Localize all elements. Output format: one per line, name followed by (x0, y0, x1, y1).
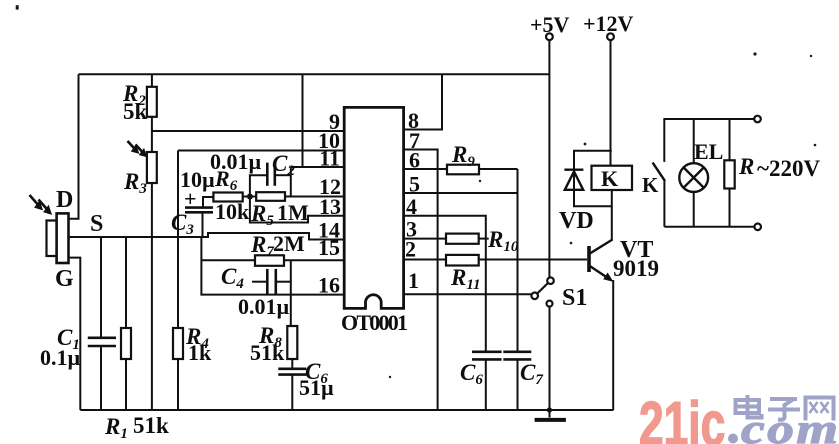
svg-text:R: R (738, 154, 754, 179)
svg-text:S: S (90, 211, 103, 237)
svg-text:9019: 9019 (613, 256, 659, 281)
svg-text:0.01µ: 0.01µ (210, 149, 262, 174)
svg-text:15: 15 (318, 235, 340, 260)
svg-text:2: 2 (405, 237, 416, 262)
svg-text:0.1µ: 0.1µ (40, 345, 81, 370)
svg-text:51k: 51k (133, 413, 169, 438)
svg-text:6: 6 (409, 148, 420, 173)
svg-text:+: + (184, 186, 197, 211)
svg-text:K: K (601, 166, 618, 191)
svg-text:+12V: +12V (583, 11, 634, 36)
svg-text:OT0001: OT0001 (341, 310, 408, 335)
svg-text:51µ: 51µ (299, 375, 334, 400)
svg-text:10k: 10k (215, 199, 250, 224)
svg-text:21ic: 21ic (639, 390, 725, 444)
svg-text:+5V: +5V (530, 12, 570, 37)
svg-text:0.01µ: 0.01µ (238, 294, 290, 319)
svg-text:VD: VD (559, 208, 594, 234)
svg-text:11: 11 (319, 146, 340, 171)
svg-text:5: 5 (409, 172, 420, 197)
svg-text:1M: 1M (277, 200, 309, 225)
svg-text:4: 4 (406, 194, 417, 219)
svg-text:5k: 5k (123, 99, 148, 124)
svg-text:K: K (642, 173, 659, 197)
svg-text:51k: 51k (250, 340, 285, 365)
svg-text:~220V: ~220V (757, 156, 820, 181)
svg-text:EL: EL (694, 139, 723, 164)
svg-text:1: 1 (408, 268, 419, 293)
svg-text:G: G (55, 266, 74, 292)
svg-text:1k: 1k (188, 340, 212, 365)
svg-text:S1: S1 (562, 285, 587, 311)
svg-text:16: 16 (318, 273, 340, 298)
svg-text:D: D (56, 187, 73, 213)
svg-text:13: 13 (319, 194, 341, 219)
svg-text:com: com (741, 406, 839, 444)
svg-text:2M: 2M (273, 231, 305, 256)
